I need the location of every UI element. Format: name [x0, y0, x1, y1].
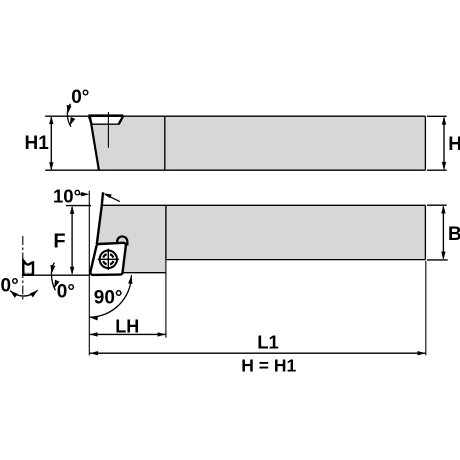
insert screw: [98, 249, 119, 270]
top view head-shank divider: [164, 116, 166, 170]
dimension F line: [70, 206, 74, 275]
svg-text:10°: 10°: [53, 185, 81, 206]
dimension H line: [442, 116, 446, 170]
insert end view centerline: [22, 236, 24, 300]
inclination arc 0 deg: [8, 288, 39, 297]
svg-text:H1: H1: [25, 133, 50, 154]
top view head left slanted edge: [90, 116, 99, 170]
dimension H1 line: [49, 116, 53, 170]
dimension B extension lines: [427, 205, 448, 260]
insert end view: [22, 261, 34, 275]
svg-text:F: F: [53, 231, 65, 253]
svg-text:L1: L1: [257, 332, 279, 353]
leader arc 0 deg clearance: [49, 263, 59, 291]
svg-text:H = H1: H = H1: [241, 355, 296, 375]
top view insert pocket: [88, 116, 123, 125]
step extension line LH: [165, 260, 167, 338]
dimension L1 line: [90, 351, 426, 355]
dimension LH line: [89, 332, 166, 336]
extension line cutting edge level: [22, 274, 90, 276]
side view right edge: [424, 205, 426, 259]
svg-text:0°: 0°: [71, 87, 89, 108]
dimension F extension line: [66, 205, 91, 207]
side view head slanted edge: [97, 192, 103, 244]
side view shank bottom edge: [166, 259, 426, 261]
side view body: [93, 205, 425, 272]
dimension L1 extension right: [425, 261, 427, 355]
svg-text:0°: 0°: [57, 282, 75, 303]
dimension B line: [441, 205, 445, 259]
10 deg arrow to vertical ref: [80, 192, 90, 196]
top view bottom edge: [45, 169, 425, 171]
side view insert: [90, 243, 126, 275]
side view clamp bump: [117, 236, 127, 245]
svg-text:B: B: [448, 224, 460, 245]
leader arc 0 deg top view: [65, 104, 75, 127]
top view top edge line: [45, 115, 425, 117]
90 deg arc: [89, 275, 133, 320]
svg-text:90°: 90°: [94, 288, 123, 309]
svg-text:H: H: [448, 134, 460, 155]
svg-text:LH: LH: [115, 316, 139, 336]
vertical reference line: [88, 191, 90, 356]
side view top edge: [102, 204, 426, 206]
10 deg arrow to slanted edge: [103, 193, 120, 201]
side view head bottom edge: [123, 272, 166, 274]
dimension H extension lines: [427, 116, 447, 170]
top view insert centerline: [107, 112, 109, 148]
side view head-shank divider: [165, 205, 167, 259]
top view right edge: [424, 116, 426, 170]
top view shank body: [91, 116, 425, 170]
